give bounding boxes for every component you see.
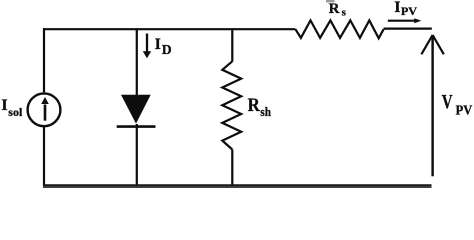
svg-text:sol: sol — [8, 105, 23, 119]
resistor Rsh zigzag — [222, 61, 241, 149]
arrow IPV — [388, 18, 422, 23]
svg-text:R: R — [329, 1, 340, 17]
svg-text:I: I — [155, 36, 161, 53]
svg-text:sh: sh — [260, 104, 271, 119]
wire Rsh branch upper — [231, 28, 233, 61]
bottom bus bar thick — [43, 186, 432, 188]
wire Rsh branch lower — [231, 150, 233, 186]
wire diode branch lower — [136, 124, 138, 186]
arrow VPV — [421, 35, 443, 176]
svg-text:PV: PV — [401, 4, 418, 18]
current source arrow — [41, 97, 49, 121]
wire top rail left segment — [43, 28, 295, 30]
svg-text:D: D — [162, 42, 172, 57]
wire top rail right segment — [384, 28, 432, 30]
arrow ID — [143, 34, 151, 59]
wire diode branch upper — [136, 28, 138, 96]
svg-text:I: I — [394, 0, 400, 16]
svg-text:I: I — [1, 97, 7, 114]
svg-text:PV: PV — [456, 102, 473, 117]
diode D cathode bar — [117, 125, 156, 128]
svg-text:s: s — [342, 7, 347, 19]
svg-text:V: V — [442, 91, 453, 113]
artifact gray mark above Rs — [326, 0, 335, 2]
current source Isol circle — [28, 93, 61, 126]
diode D triangle — [121, 95, 151, 124]
wire left branch lower — [43, 127, 45, 186]
svg-text:R: R — [248, 95, 260, 116]
wire left branch upper — [43, 28, 45, 92]
wire bottom rail — [43, 184, 432, 186]
resistor Rs zigzag — [295, 20, 383, 38]
